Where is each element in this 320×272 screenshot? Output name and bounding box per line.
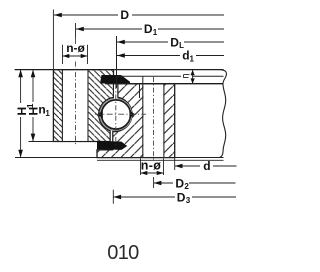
svg-text:D: D: [120, 8, 129, 22]
equator wedge left: [98, 111, 103, 119]
bottom hole centerline: [153, 77, 155, 162]
bottom seal (black): [97, 141, 127, 150]
raceway gap white ring: [100, 98, 132, 130]
svg-text:1: 1: [26, 103, 35, 108]
inner ring upper-left edge line: [139, 84, 141, 98]
D dimension: [54, 8, 224, 22]
svg-text:1: 1: [190, 55, 195, 64]
top hole centerline: [75, 38, 77, 44]
outer ring (left) hatched body: [53, 70, 113, 142]
plate mid line (y=76.2) with gap for h label: [117, 75, 182, 77]
svg-text:d: d: [182, 49, 189, 63]
gap slot below ball: [111, 131, 113, 141]
gap slot above ball: [114, 84, 117, 99]
svg-text:1: 1: [153, 28, 158, 37]
DL dimension: [117, 35, 224, 50]
D3 dimension: [113, 190, 236, 206]
top bolt hole (white): [62, 70, 88, 141]
D2 dimension: [154, 176, 236, 191]
ball horizontal centerline: [95, 113, 146, 115]
h glyph strokes: [184, 75, 190, 78]
inner ring (right) hatched body: [97, 84, 175, 158]
svg-text:010: 010: [107, 242, 139, 264]
svg-text:3: 3: [186, 196, 191, 205]
ball: [101, 100, 130, 129]
svg-text:n-ø: n-ø: [66, 41, 85, 55]
plate top line: [15, 69, 224, 71]
lower structure top line + H extension: [15, 157, 224, 159]
svg-text:D: D: [175, 176, 184, 190]
ball vertical centerline: [115, 84, 117, 145]
bottom bolt hole (white): [143, 84, 163, 156]
svg-text:D: D: [170, 35, 179, 49]
D extension: [52, 10, 54, 70]
svg-text:D: D: [144, 22, 153, 36]
svg-text:n-ø: n-ø: [141, 159, 161, 173]
break line (wavy): [220, 70, 227, 158]
d1 dimension: [117, 49, 224, 64]
svg-text:d: d: [203, 159, 210, 173]
h dimension (right): [192, 70, 194, 84]
second bottom line: [97, 159, 224, 161]
spigot step edge: [142, 76, 144, 84]
top seal (black): [100, 75, 130, 84]
d dimension: [175, 158, 237, 174]
n-ø bottom: [141, 159, 164, 176]
equator wedge right: [129, 111, 135, 119]
svg-text:1: 1: [45, 109, 50, 118]
svg-text:D: D: [177, 190, 186, 204]
plate left edge: [116, 36, 118, 88]
D1 dimension: [75, 23, 77, 38]
outer ring bottom + H1 extension: [29, 141, 65, 143]
plate bottom line: [105, 83, 224, 85]
